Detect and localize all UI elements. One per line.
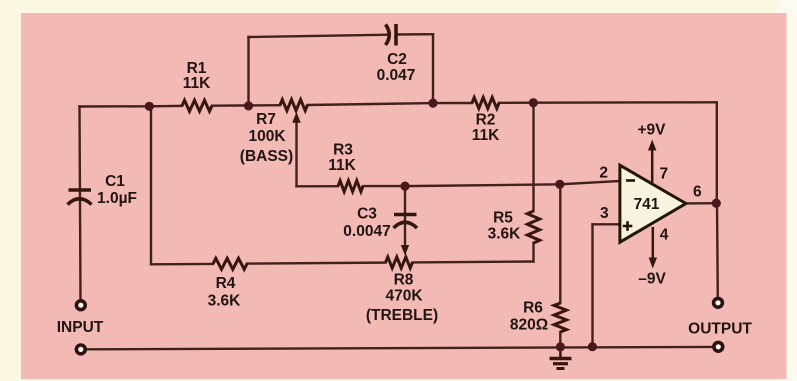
wire: R7 wiper vertical: [295, 118, 297, 186]
wire: C2 branch top horizontal right of C2: [397, 33, 434, 36]
node E output: [712, 199, 721, 208]
svg-text:C2: C2: [387, 51, 407, 68]
wire: bottom ground bus INPUT to OUTPUT: [86, 347, 713, 349]
wire: top-left horizontal into node A: [80, 105, 150, 108]
label R4 value: [208, 275, 242, 310]
capacitor C2: [386, 24, 397, 46]
pin 7 supply arrow up: [648, 140, 656, 185]
wire: op-amp output to node E: [686, 202, 716, 205]
svg-text:820Ω: 820Ω: [510, 317, 548, 334]
svg-text:0.0047: 0.0047: [343, 223, 390, 240]
INPUT lower terminal: [76, 345, 85, 354]
svg-text:–9V: –9V: [638, 271, 666, 288]
resistor R3: [338, 181, 363, 192]
svg-text:C1: C1: [105, 173, 125, 190]
label C1 value: [97, 173, 137, 207]
ground: [550, 347, 572, 369]
wire: bottom line to R4: [151, 263, 213, 266]
svg-text:(TREBLE): (TREBLE): [366, 307, 438, 324]
label R3 value: [328, 142, 356, 175]
op-amp plus sign: [623, 221, 633, 231]
INPUT upper terminal: [76, 301, 85, 310]
wire: R5 bottom to corner: [532, 243, 534, 262]
resistor R4: [213, 258, 247, 269]
svg-text:OUTPUT: OUTPUT: [688, 321, 752, 338]
svg-text:(BASS): (BASS): [240, 148, 293, 165]
svg-text:R6: R6: [523, 300, 543, 317]
svg-text:2: 2: [599, 165, 608, 182]
wire: bottom line R8 to R5 bottom corner: [413, 260, 534, 263]
wire: R3 to node F: [363, 185, 405, 187]
svg-text:1.0µF: 1.0µF: [97, 190, 137, 207]
svg-text:7: 7: [660, 166, 669, 183]
wiper arrow of R8 (from C3): [401, 245, 409, 256]
svg-text:R4: R4: [216, 275, 236, 292]
svg-text:R3: R3: [333, 142, 353, 159]
wire: right vertical from top corner to node E: [716, 102, 718, 203]
wire: C2 branch right vertical down to node C: [432, 34, 434, 103]
svg-text:470K: 470K: [385, 288, 423, 305]
svg-text:4: 4: [660, 227, 669, 244]
wire: node G down to R6 top: [559, 184, 561, 303]
label R6 value: [510, 300, 548, 334]
wire: main line R1 to R7: [212, 104, 280, 107]
label R5 value: [488, 210, 522, 243]
label C3 value: [343, 206, 390, 241]
wire: node G to op-amp pin 2: [560, 181, 620, 184]
OUTPUT upper terminal: [714, 298, 723, 307]
svg-text:3.6K: 3.6K: [208, 293, 242, 310]
wire: C2 branch left vertical: [247, 37, 249, 106]
svg-text:741: 741: [634, 196, 660, 213]
resistor R8: [386, 257, 413, 268]
wire: C2 branch top horizontal left of C2: [249, 35, 389, 37]
svg-text:R8: R8: [394, 272, 414, 289]
label R7 value: [240, 111, 293, 165]
label C2 value: [377, 51, 416, 84]
wire: pin 3 horizontal into op-amp: [593, 223, 620, 225]
svg-text:11K: 11K: [183, 75, 211, 92]
OUTPUT lower terminal: [714, 342, 723, 351]
svg-text:3: 3: [600, 205, 609, 222]
node D: [529, 98, 538, 107]
resistor R5: [527, 211, 539, 243]
resistor R7: [280, 100, 308, 111]
wire: main line R7 to node C: [308, 103, 434, 105]
node H ground junction: [556, 342, 565, 351]
node B: [244, 101, 253, 110]
svg-text:R7: R7: [256, 111, 276, 128]
wiper arrow of R7: [292, 112, 301, 123]
wire: left vertical from top line through C1 to INPUT terminal: [80, 107, 81, 300]
wire: R6 bottom to ground line: [559, 332, 561, 347]
wire: node D down to R5 top: [532, 103, 534, 211]
node G: [555, 180, 564, 189]
svg-text:+9V: +9V: [637, 122, 666, 139]
label R1 value: [183, 60, 211, 92]
node C: [428, 99, 437, 108]
node I pin3 junction: [588, 342, 597, 351]
pin 4 supply arrow down: [649, 227, 657, 269]
wire: main line R2 to node D: [499, 101, 533, 104]
label R2 value: [472, 112, 500, 145]
svg-text:6: 6: [693, 184, 702, 201]
svg-text:3.6K: 3.6K: [488, 226, 522, 243]
wire: main line node C to R2: [433, 102, 472, 104]
svg-text:100K: 100K: [248, 128, 286, 145]
wire: node F to node G (R6 top): [405, 184, 560, 186]
svg-text:R5: R5: [493, 210, 513, 227]
wire: node A down to bottom resistor line: [150, 106, 152, 264]
wire: pin 3 vertical riser: [591, 224, 593, 346]
wire: wiper corner to R3: [297, 185, 339, 188]
resistor R1: [182, 100, 212, 111]
wire: bottom line R4 to R8: [247, 263, 386, 264]
wire: main line node D to top-right corner: [533, 101, 717, 104]
wire: main line node A to R1: [149, 105, 182, 108]
resistor R2: [472, 97, 499, 108]
capacitor C1: [68, 190, 92, 205]
wire: node E down to OUTPUT upper terminal: [716, 203, 719, 297]
svg-text:INPUT: INPUT: [57, 319, 104, 336]
wire: node F down through C3 toward R8 wiper: [404, 186, 406, 247]
svg-text:R2: R2: [476, 112, 496, 129]
node F: [400, 182, 409, 191]
op-amp U1 741: [620, 165, 686, 242]
svg-text:0.047: 0.047: [377, 67, 416, 84]
svg-text:11K: 11K: [328, 157, 356, 174]
op-amp minus sign: [626, 179, 635, 182]
label R8 value: [366, 272, 438, 325]
node A: [145, 102, 154, 111]
resistor R6: [554, 303, 566, 332]
svg-text:C3: C3: [357, 206, 377, 223]
capacitor C3: [394, 215, 418, 229]
svg-text:11K: 11K: [472, 127, 500, 144]
